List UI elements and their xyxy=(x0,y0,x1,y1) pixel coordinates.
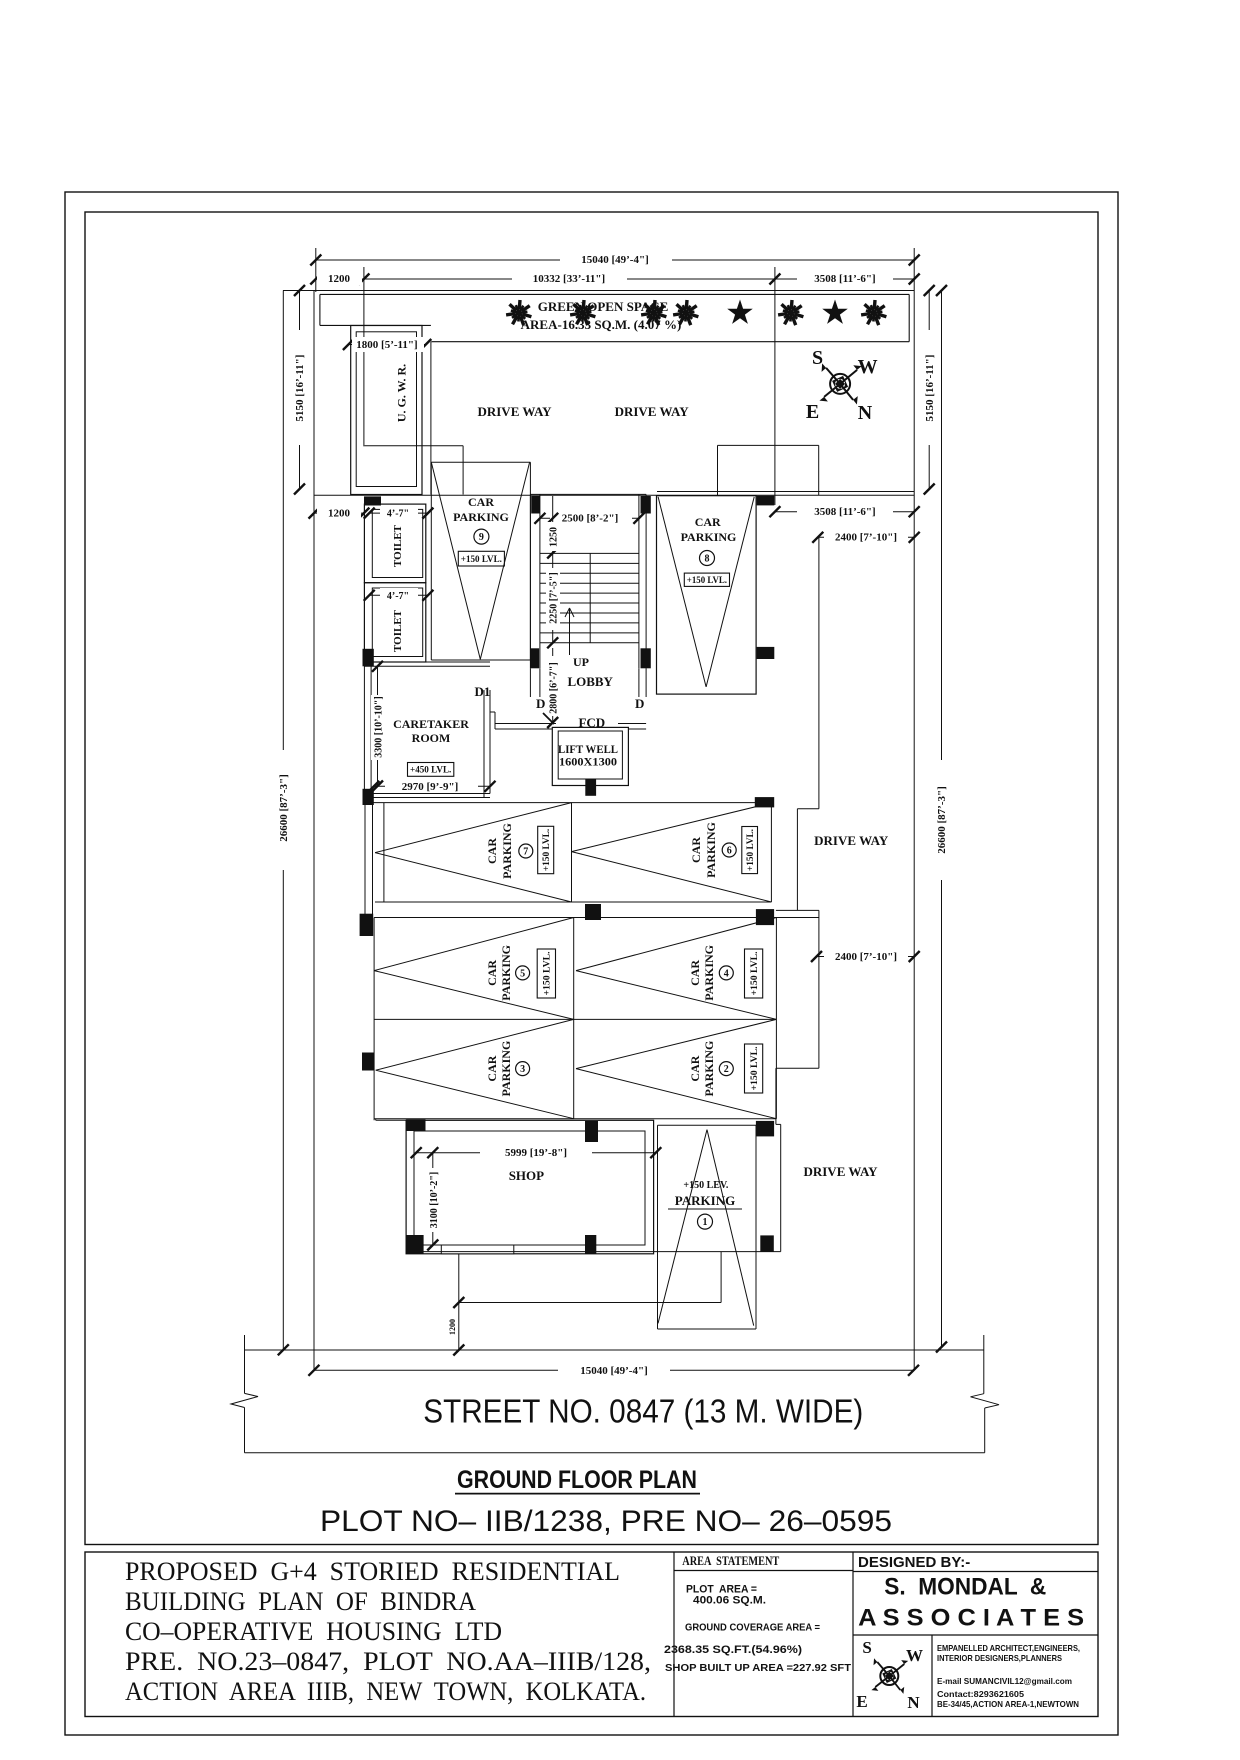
svg-text:+150 LVL.: +150 LVL. xyxy=(542,829,552,871)
svg-text:+150 LVL.: +150 LVL. xyxy=(746,829,756,871)
svg-text:PLOT NO– IIB/1238, PRE NO– 26–: PLOT NO– IIB/1238, PRE NO– 26–0595 xyxy=(320,1505,892,1538)
svg-text:26600 [87’-3"]: 26600 [87’-3"] xyxy=(936,786,948,854)
street bottom edge xyxy=(245,1452,985,1454)
column shop TL xyxy=(406,1119,425,1131)
dim extension verticals xyxy=(315,248,317,292)
dim 3300 xyxy=(377,666,379,786)
stall number 2 xyxy=(719,1062,733,1076)
svg-text:TOILET: TOILET xyxy=(392,609,404,652)
stall 3 V xyxy=(376,1019,574,1070)
svg-text:DRIVE WAY: DRIVE WAY xyxy=(477,404,552,419)
column parking8 bottom xyxy=(757,647,775,659)
column left row5 xyxy=(360,914,374,936)
stairwell walls xyxy=(529,494,531,668)
parking 8 V marking xyxy=(658,497,706,687)
svg-text:SHOP BUILT UP AREA =227.92 SFT: SHOP BUILT UP AREA =227.92 SFT xyxy=(665,1662,852,1674)
svg-text:+150 LVL.: +150 LVL. xyxy=(543,952,553,996)
stall number 8 xyxy=(700,551,715,566)
svg-text:26600 [87’-3"]: 26600 [87’-3"] xyxy=(278,774,290,842)
svg-text:5999 [19’-8"]: 5999 [19’-8"] xyxy=(505,1147,567,1159)
svg-text:TOILET: TOILET xyxy=(392,524,404,567)
stall 2 V xyxy=(576,1019,776,1068)
dim 4-7 lower xyxy=(369,594,428,596)
dim 2970 xyxy=(374,785,490,787)
svg-text:2400 [7’-10"]: 2400 [7’-10"] xyxy=(835,951,897,963)
svg-text:W: W xyxy=(906,1646,923,1665)
inner drawing border frame xyxy=(85,212,1098,1545)
svg-text:N: N xyxy=(858,402,873,424)
svg-text:15040 [49’-4"]: 15040 [49’-4"] xyxy=(581,254,649,266)
site boundary right xyxy=(913,278,915,1369)
svg-text:+150 LEV.: +150 LEV. xyxy=(683,1180,728,1191)
car parking 8 stall xyxy=(657,496,757,694)
svg-text:Contact:8293621605: Contact:8293621605 xyxy=(937,1689,1024,1699)
dim 2250 stair flight xyxy=(552,553,554,643)
parking 1 bay xyxy=(658,1124,757,1126)
svg-text:2250 [7’-5"]: 2250 [7’-5"] xyxy=(549,572,560,623)
column shop TR xyxy=(756,1121,774,1137)
car parking 9 stall xyxy=(431,461,530,463)
dim 26600 left xyxy=(282,291,284,1350)
svg-text:+150 LVL.: +150 LVL. xyxy=(461,555,502,565)
stall 4 V xyxy=(576,918,776,971)
+150 LVL box stall 7 xyxy=(538,826,554,873)
svg-text:W: W xyxy=(858,356,878,378)
dim 3100 xyxy=(432,1153,434,1245)
parking 1 inverted V xyxy=(658,1130,707,1324)
svg-text:5150 [16’-11"]: 5150 [16’-11"] xyxy=(294,355,306,422)
dim 2500 stair width xyxy=(540,517,639,519)
svg-text:PARKING: PARKING xyxy=(499,1041,513,1097)
dim 15040 top overall xyxy=(316,259,914,261)
svg-text:CAR: CAR xyxy=(688,1055,702,1081)
svg-text:GROUND FLOOR PLAN: GROUND FLOOR PLAN xyxy=(457,1466,697,1494)
lobby bottom wall xyxy=(495,723,556,725)
caretaker room walls xyxy=(364,661,490,663)
svg-text:ACTION AREA IIIB, NEW TOWN: ACTION AREA IIIB, NEW TOWN, KOLKATA. xyxy=(125,1677,646,1706)
+150 LVL box stall 4 xyxy=(745,949,763,998)
stall number 9 xyxy=(474,529,489,544)
column left row3 xyxy=(362,1053,374,1071)
ramp kerb rect right xyxy=(718,444,819,446)
title block compass xyxy=(880,1667,898,1685)
lift well xyxy=(552,727,628,785)
dim 5150 left xyxy=(299,291,301,490)
stall number 1 xyxy=(698,1214,713,1229)
title block divider 1 xyxy=(673,1552,675,1717)
stall number 3 xyxy=(516,1062,530,1076)
svg-text:D: D xyxy=(635,696,644,711)
svg-text:LOBBY: LOBBY xyxy=(567,674,613,689)
svg-text:+150 LVL.: +150 LVL. xyxy=(750,952,760,996)
svg-text:DRIVE WAY: DRIVE WAY xyxy=(814,833,889,848)
svg-text:2800 [6’-7"]: 2800 [6’-7"] xyxy=(549,662,560,713)
svg-text:4: 4 xyxy=(724,968,729,979)
parking 7 V marking xyxy=(375,803,571,853)
column mid rows xyxy=(585,904,601,920)
+150 LVL box stall 8 xyxy=(684,573,729,586)
svg-text:PARKING: PARKING xyxy=(702,945,716,1001)
svg-text:PARKING: PARKING xyxy=(681,530,737,544)
+150 LVL box stall 2 xyxy=(745,1044,763,1093)
svg-text:DESIGNED BY:-: DESIGNED BY:- xyxy=(858,1554,970,1571)
svg-text:CARETAKER: CARETAKER xyxy=(393,717,469,731)
svg-text:400.06 SQ.M.: 400.06 SQ.M. xyxy=(693,1594,766,1606)
+150 LVL box stall 9 xyxy=(458,551,504,566)
reservoir ledge line xyxy=(363,445,463,447)
column parking8 top xyxy=(757,496,775,506)
shop entrance step xyxy=(441,1245,514,1254)
stall number 7 xyxy=(519,844,533,858)
svg-text:S: S xyxy=(812,347,823,369)
shop walls xyxy=(406,1120,653,1254)
svg-text:DRIVE WAY: DRIVE WAY xyxy=(615,404,690,419)
svg-text:PARKING: PARKING xyxy=(702,1041,716,1097)
svg-text:N: N xyxy=(907,1693,920,1712)
svg-text:SHOP: SHOP xyxy=(509,1168,544,1183)
dim 1200 lower left xyxy=(314,512,364,514)
svg-text:8: 8 xyxy=(705,554,710,565)
parking 9 V marking xyxy=(431,462,480,659)
svg-text:CAR: CAR xyxy=(468,495,494,509)
svg-text:E-mail SUMANCIVIL12@gmail.com: E-mail SUMANCIVIL12@gmail.com xyxy=(937,1676,1072,1686)
column shop BM xyxy=(585,1235,596,1254)
stair center stringer xyxy=(589,553,591,642)
svg-text:+150 LVL.: +150 LVL. xyxy=(687,576,727,586)
site boundary top xyxy=(283,290,914,292)
dim 1250 landing xyxy=(552,496,554,553)
lift well column block xyxy=(585,779,596,796)
row 7/6 bottom wall xyxy=(375,901,771,903)
svg-text:9: 9 xyxy=(479,532,484,543)
stall number 5 xyxy=(516,966,530,980)
svg-text:D: D xyxy=(536,696,545,711)
svg-text:INTERIOR DESIGNERS,PLANNERS: INTERIOR DESIGNERS,PLANNERS xyxy=(937,1653,1062,1663)
svg-text:U. G. W. R.: U. G. W. R. xyxy=(395,364,409,422)
street right break xyxy=(983,1335,985,1394)
svg-text:S. MONDAL &: S. MONDAL & xyxy=(884,1573,1046,1600)
compass rose north indicator xyxy=(830,374,850,394)
svg-text:1250: 1250 xyxy=(549,527,560,547)
column stair TR xyxy=(641,496,651,514)
svg-text:STREET NO. 0847 (13 M. WIDE): STREET NO. 0847 (13 M. WIDE) xyxy=(423,1393,863,1430)
stall number 6 xyxy=(722,843,736,857)
svg-text:PARKING: PARKING xyxy=(704,822,718,878)
left wall below caretaker xyxy=(364,805,366,918)
svg-text:5150 [16’-11"]: 5150 [16’-11"] xyxy=(924,355,936,422)
svg-text:4’-7": 4’-7" xyxy=(387,591,409,602)
svg-text:2500 [8’-2"]: 2500 [8’-2"] xyxy=(562,513,619,525)
svg-text:DRIVE WAY: DRIVE WAY xyxy=(803,1164,878,1179)
dim 5999 xyxy=(416,1152,656,1154)
dim row 1200 / 10332 / 3508 xyxy=(316,278,914,280)
dim 3508 right xyxy=(775,511,914,513)
building top wall xyxy=(314,494,914,496)
svg-text:CAR: CAR xyxy=(485,1055,499,1081)
stall 7 xyxy=(383,803,385,902)
svg-text:7: 7 xyxy=(523,847,528,858)
block outline rows 5/4 3/2 xyxy=(374,917,819,919)
svg-text:D1: D1 xyxy=(475,684,491,699)
svg-text:2368.35 SQ.FT.(54.96%): 2368.35 SQ.FT.(54.96%) xyxy=(664,1644,802,1656)
dim 2400 lower xyxy=(817,956,915,958)
dim 15040 bottom xyxy=(314,1369,914,1371)
svg-text:+450 LVL.: +450 LVL. xyxy=(410,766,451,776)
svg-text:AREA-16.33 SQ.M. (4.07 %): AREA-16.33 SQ.M. (4.07 %) xyxy=(521,317,682,332)
dim 2400 upper xyxy=(818,536,914,538)
svg-text:BUILDING PLAN OF BINDRA: BUILDING PLAN OF BINDRA xyxy=(125,1587,476,1616)
dim 2800 lobby xyxy=(552,648,554,723)
toilet 2 walls xyxy=(364,583,425,662)
dim 5150 right xyxy=(928,291,930,490)
svg-text:CAR: CAR xyxy=(695,515,721,529)
svg-text:E: E xyxy=(806,401,819,423)
UP arrow xyxy=(569,608,571,655)
column lobby L xyxy=(530,648,539,668)
door swing mark xyxy=(543,713,554,724)
column row76 topR xyxy=(755,797,774,807)
street top edge xyxy=(245,1349,984,1351)
U.G.W.R. room walls xyxy=(351,326,422,495)
svg-text:CAR: CAR xyxy=(689,837,703,863)
parking 6 V marking xyxy=(572,803,772,852)
svg-text:2400 [7’-10"]: 2400 [7’-10"] xyxy=(835,532,897,544)
stall 6 xyxy=(770,803,772,902)
svg-text:3508 [11’-6"]: 3508 [11’-6"] xyxy=(814,506,875,518)
row 7/6 top wall xyxy=(373,802,772,804)
svg-text:1200: 1200 xyxy=(328,273,351,285)
svg-text:1200: 1200 xyxy=(328,508,351,520)
svg-text:AREA STATEMENT: AREA STATEMENT xyxy=(682,1554,780,1568)
street left break xyxy=(244,1335,246,1393)
title block divider 2 xyxy=(852,1552,854,1717)
svg-text:10332 [33’-11"]: 10332 [33’-11"] xyxy=(533,273,605,285)
+150 LVL box stall 5 xyxy=(537,949,555,998)
column right rows xyxy=(756,909,774,925)
toilet 1 walls xyxy=(364,504,425,583)
svg-text:15040 [49’-4"]: 15040 [49’-4"] xyxy=(580,1365,648,1377)
column caretaker TL xyxy=(363,649,374,667)
svg-text:CAR: CAR xyxy=(485,960,499,986)
svg-text:3300 [10’-10"]: 3300 [10’-10"] xyxy=(374,696,385,757)
green open space band xyxy=(320,293,909,295)
svg-text:5: 5 xyxy=(520,968,525,979)
building bottom wall xyxy=(406,1251,781,1253)
svg-text:4’-7": 4’-7" xyxy=(387,509,409,520)
dim 4-7 upper xyxy=(369,512,428,514)
+150 LVL box stall 6 xyxy=(742,827,758,874)
svg-text:GROUND COVERAGE AREA =: GROUND COVERAGE AREA = xyxy=(685,1622,820,1634)
stall number 4 xyxy=(719,966,733,980)
lobby side walls xyxy=(529,668,531,697)
svg-text:6: 6 xyxy=(727,846,732,857)
column stair TL xyxy=(531,496,540,514)
svg-text:3508 [11’-6"]: 3508 [11’-6"] xyxy=(814,273,875,285)
column shop BL xyxy=(406,1235,423,1254)
svg-text:BE-34/45,ACTION AREA-1,NEWTOWN: BE-34/45,ACTION AREA-1,NEWTOWN xyxy=(937,1699,1079,1709)
svg-text:UP: UP xyxy=(573,655,589,669)
svg-text:PRE. NO.23–0847, PLOT NO.AA: PRE. NO.23–0847, PLOT NO.AA–IIIB/128, xyxy=(125,1647,651,1676)
column shop TM xyxy=(585,1121,598,1142)
svg-text:LIFT WELL: LIFT WELL xyxy=(558,744,618,756)
svg-text:GREEN OPEN SPACE: GREEN OPEN SPACE xyxy=(538,299,669,314)
column caretaker BL xyxy=(363,789,374,805)
svg-text:1800 [5’-11"]: 1800 [5’-11"] xyxy=(356,339,417,351)
+450 LVL box xyxy=(408,763,454,777)
dim 1800 xyxy=(348,344,425,346)
svg-text:3: 3 xyxy=(520,1064,525,1075)
svg-text:CO–OPERATIVE HOUSING LTD: CO–OPERATIVE HOUSING LTD xyxy=(125,1617,502,1646)
driveway boundary polyline xyxy=(818,537,820,808)
svg-text:PARKING: PARKING xyxy=(499,945,513,1001)
svg-text:1: 1 xyxy=(703,1217,708,1228)
site boundary left xyxy=(313,291,315,1371)
svg-text:EMPANELLED ARCHITECT,ENGINEERS: EMPANELLED ARCHITECT,ENGINEERS, xyxy=(937,1643,1080,1653)
svg-text:1200: 1200 xyxy=(448,1319,457,1335)
svg-text:CAR: CAR xyxy=(688,960,702,986)
svg-text:PARKING: PARKING xyxy=(675,1193,735,1208)
svg-text:A S S O C I A T E S: A S S O C I A T E S xyxy=(858,1605,1084,1632)
column parking1 R xyxy=(760,1235,774,1251)
column lobby R xyxy=(641,648,651,668)
column toilet top xyxy=(364,496,381,505)
svg-text:ROOM: ROOM xyxy=(412,731,451,745)
svg-text:PARKING: PARKING xyxy=(453,510,509,524)
svg-text:S: S xyxy=(862,1638,871,1657)
svg-text:CAR: CAR xyxy=(485,838,499,864)
svg-text:E: E xyxy=(856,1692,867,1711)
stars in green band xyxy=(506,300,531,325)
stair treads xyxy=(540,552,639,554)
svg-text:1600X1300: 1600X1300 xyxy=(559,757,617,769)
outer page border frame xyxy=(65,192,1118,1735)
svg-text:PROPOSED G+4 STORIED RESIDE: PROPOSED G+4 STORIED RESIDENTIAL xyxy=(125,1557,620,1586)
svg-text:2970 [9’-9"]: 2970 [9’-9"] xyxy=(402,781,459,793)
left step to shop xyxy=(375,1119,377,1121)
title block frame xyxy=(85,1552,1098,1717)
svg-text:PARKING: PARKING xyxy=(500,823,514,879)
small dim at yard xyxy=(458,1303,460,1351)
svg-text:2: 2 xyxy=(724,1064,729,1075)
svg-text:+150 LVL.: +150 LVL. xyxy=(750,1047,760,1091)
stall 5 V xyxy=(374,918,574,971)
yard outline xyxy=(458,1254,460,1303)
dim 26600 right xyxy=(941,291,943,1348)
svg-text:3100 [10’-2"]: 3100 [10’-2"] xyxy=(429,1172,440,1228)
